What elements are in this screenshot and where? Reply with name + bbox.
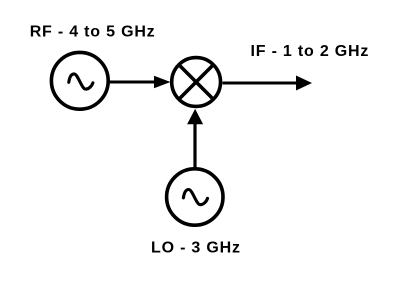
svg-text:IF - 1 to 2 GHz: IF - 1 to 2 GHz <box>251 43 370 60</box>
svg-text:RF - 4 to 5 GHz: RF - 4 to 5 GHz <box>30 24 156 41</box>
svg-text:LO - 3 GHz: LO - 3 GHz <box>151 240 241 257</box>
